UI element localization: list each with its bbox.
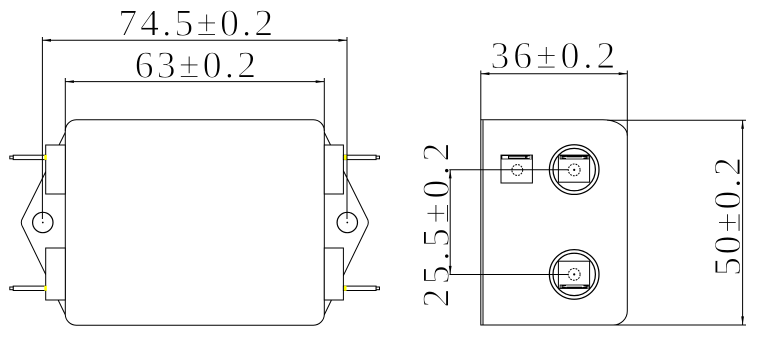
svg-text:50±0.2: 50±0.2 bbox=[707, 157, 749, 276]
terminal bottom square bbox=[558, 261, 589, 288]
dimension line 74.5 bbox=[42, 39, 347, 41]
terminal bottom tab bar bbox=[560, 285, 589, 289]
extension line 63 right bbox=[323, 78, 325, 131]
dimension line 25.5 bbox=[449, 170, 451, 275]
terminal bottom (head-on) outer circle bbox=[549, 250, 599, 300]
terminal bottom inner circle bbox=[553, 253, 595, 295]
terminal bottom center circle bbox=[568, 269, 580, 281]
svg-text:63±0.2: 63±0.2 bbox=[135, 44, 257, 86]
solder joint marker bottom-left bbox=[44, 286, 47, 291]
solder joint marker top-left bbox=[44, 155, 47, 160]
solder joint marker top-right bbox=[344, 155, 347, 160]
extension line 74.5 right (to hole center) bbox=[346, 37, 348, 219]
pin bottom-left bbox=[10, 286, 46, 290]
extension line 63 left bbox=[64, 78, 66, 131]
pin bottom-right bbox=[343, 286, 379, 290]
terminal top (head-on) outer circle bbox=[549, 145, 599, 195]
terminal top inner circle bbox=[553, 148, 595, 190]
terminal block bottom-right bbox=[324, 248, 343, 300]
leader line to bottom terminal center bbox=[447, 274, 569, 276]
extension line 74.5 left (to hole center) bbox=[41, 37, 43, 219]
filter body (side view) bbox=[481, 120, 628, 325]
dimension line 63 bbox=[65, 81, 324, 83]
svg-text:74.5±0.2: 74.5±0.2 bbox=[118, 3, 273, 45]
left mounting flange bbox=[21, 131, 66, 317]
terminal block top-right bbox=[324, 145, 343, 194]
terminal top square bbox=[558, 155, 589, 182]
filter body (front view) bbox=[65, 120, 324, 325]
svg-text:36±0.2: 36±0.2 bbox=[490, 35, 615, 77]
mounting hole right bbox=[337, 212, 357, 232]
solder joint marker bottom-right bbox=[344, 286, 347, 291]
terminal top tab bar bbox=[560, 155, 589, 159]
dimension line 50 bbox=[742, 120, 744, 325]
extension line 50 bottom bbox=[613, 324, 746, 326]
terminal block bottom-left bbox=[46, 248, 66, 300]
extension line 36 right bbox=[626, 71, 628, 136]
terminal block top-left bbox=[46, 145, 66, 194]
ground tab (head-on) bbox=[501, 155, 532, 183]
pin top-left bbox=[10, 155, 46, 159]
terminal top center dot bbox=[573, 169, 575, 171]
leader line to top terminal center bbox=[447, 169, 569, 171]
extension line 50 top bbox=[607, 119, 746, 121]
ground tab hidden circle bbox=[512, 165, 523, 176]
terminal top center circle bbox=[568, 164, 580, 176]
pin top-right bbox=[343, 155, 379, 159]
side view inner edge line bbox=[482, 120, 484, 324]
dimension line 36 bbox=[481, 73, 628, 75]
right mounting flange bbox=[323, 131, 368, 317]
mounting hole left bbox=[33, 212, 53, 232]
terminal bottom center dot bbox=[573, 273, 575, 275]
extension line 36 left bbox=[480, 71, 482, 120]
